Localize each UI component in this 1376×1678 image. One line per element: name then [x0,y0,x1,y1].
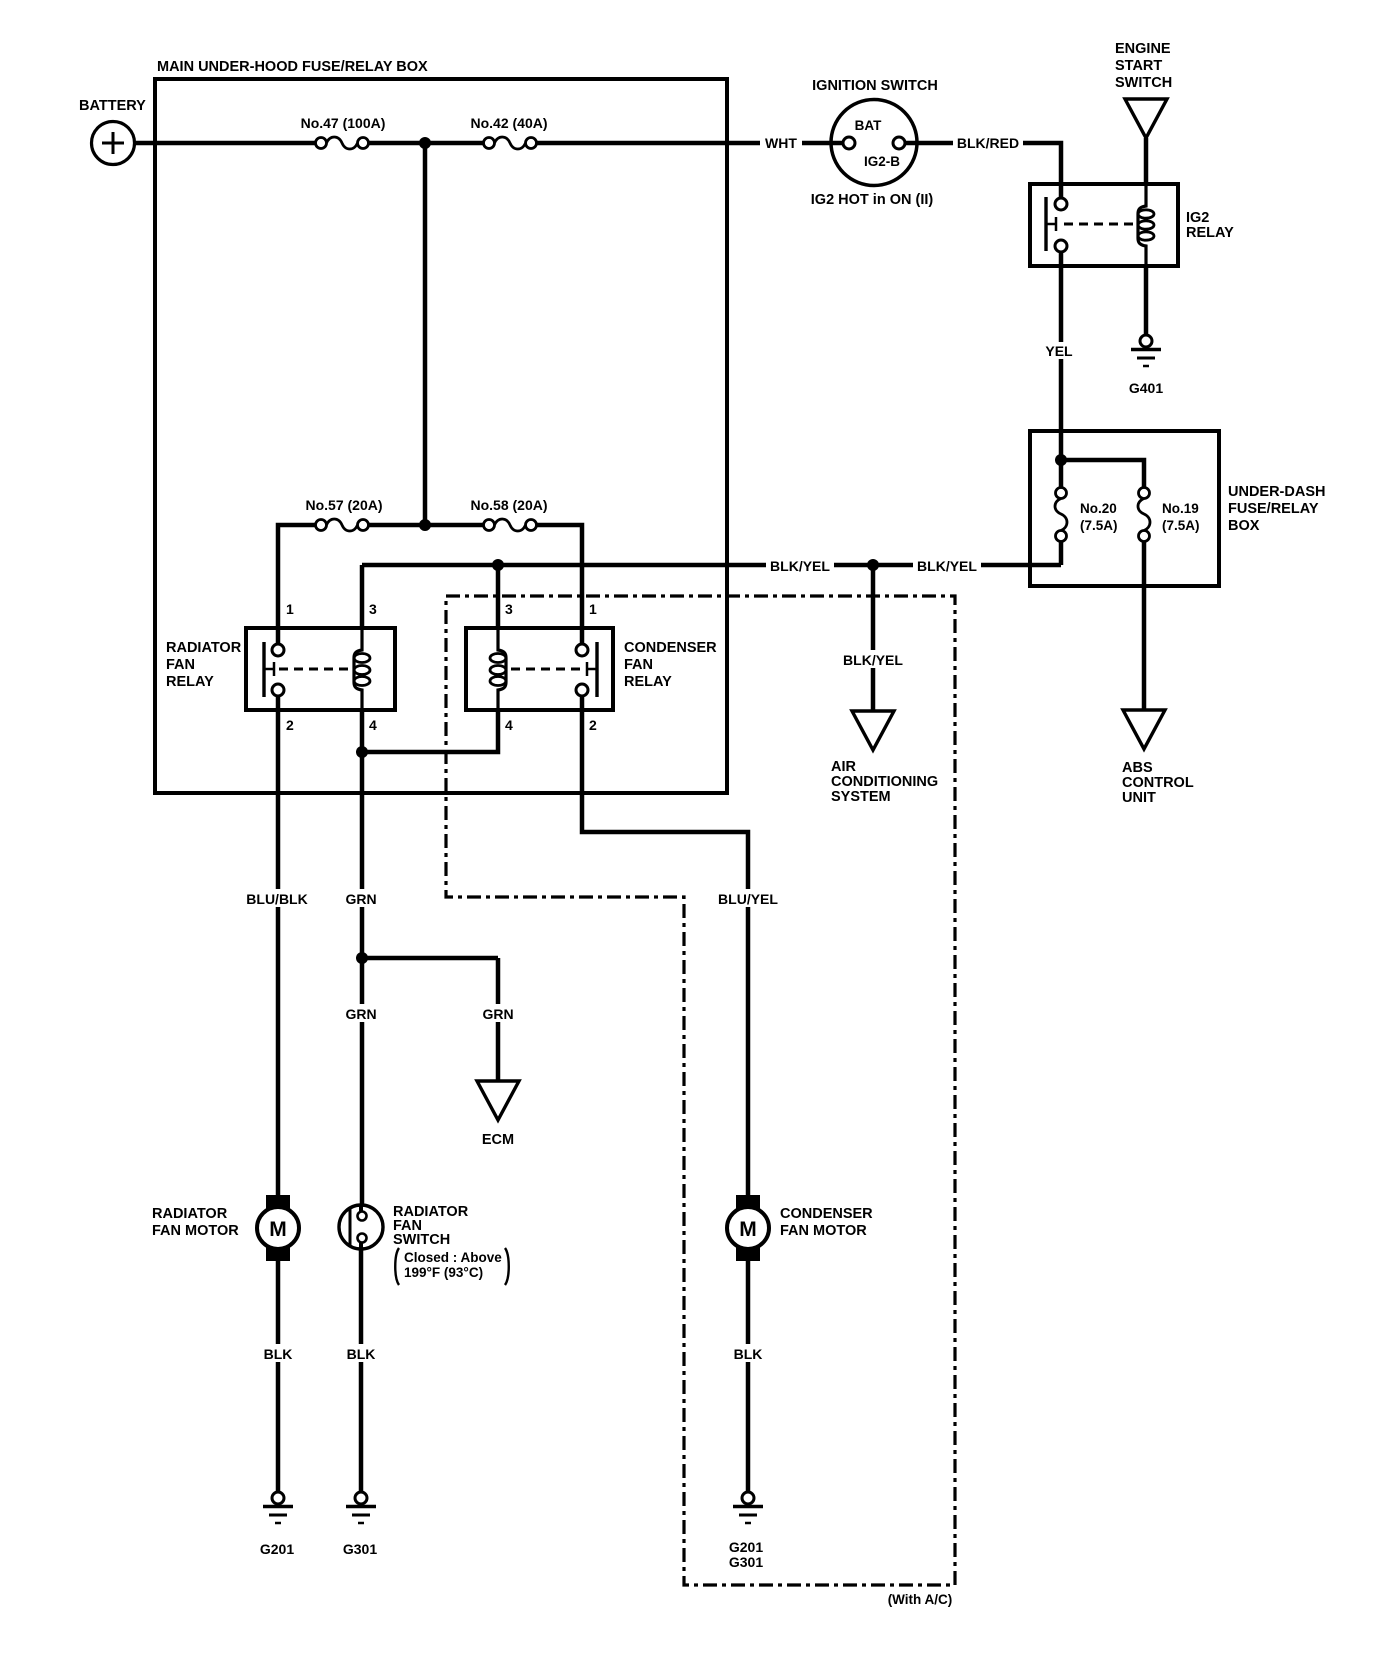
ground G401 [1129,335,1163,396]
svg-text:ABS: ABS [1122,760,1153,776]
fuse No.58 (20A) [470,497,547,531]
wire BLK/YEL to air conditioning system [839,565,907,711]
svg-text:BLK/YEL: BLK/YEL [770,558,830,574]
wire tap to condenser relay pin 3 [496,565,501,628]
wire GRN to radiator fan switch [340,958,382,1206]
ground G201 G301 condenser [729,1492,763,1570]
svg-text:FAN: FAN [166,657,195,673]
svg-text:RADIATOR: RADIATOR [152,1206,228,1222]
wire GRN split horizontal [362,956,498,961]
svg-text:BAT: BAT [855,118,882,133]
svg-text:AIR: AIR [831,759,857,775]
main under-hood fuse/relay box [155,59,727,793]
fuse No.42 (40A) [470,115,547,149]
wire junction to fuse No.19 [1061,460,1144,487]
svg-text:CONDENSER: CONDENSER [780,1206,873,1222]
svg-text:CONDENSER: CONDENSER [624,640,717,656]
svg-text:(With A/C): (With A/C) [888,1592,953,1607]
svg-text:RELAY: RELAY [1186,225,1234,241]
wire IG2 coil to ground [1144,266,1149,336]
svg-text:FAN MOTOR: FAN MOTOR [780,1223,867,1239]
svg-text:No.42 (40A): No.42 (40A) [470,115,547,131]
svg-text:2: 2 [589,717,597,733]
svg-text:BLK: BLK [734,1346,763,1362]
radiator fan motor [152,1195,299,1261]
svg-text:BLK: BLK [347,1346,376,1362]
svg-text:FAN: FAN [624,657,653,673]
svg-text:G301: G301 [343,1541,377,1557]
fuse No.19 (7.5A) [1138,488,1200,542]
fuse No.20 (7.5A) [1055,460,1118,542]
wire GRN radiator relay pin 4 down [340,710,382,958]
svg-text:RELAY: RELAY [166,674,214,690]
svg-text:G401: G401 [1129,380,1163,396]
svg-text:G201: G201 [260,1541,294,1557]
ground G301 [343,1492,377,1557]
svg-text:No.20: No.20 [1080,501,1117,516]
svg-text:3: 3 [369,601,377,617]
svg-text:No.47 (100A): No.47 (100A) [301,115,386,131]
svg-text:BLK: BLK [264,1346,293,1362]
svg-text:UNIT: UNIT [1122,790,1156,806]
svg-text:GRN: GRN [482,1006,513,1022]
svg-text:SWITCH: SWITCH [393,1232,450,1248]
svg-text:BLK/YEL: BLK/YEL [843,652,903,668]
svg-text:FUSE/RELAY: FUSE/RELAY [1228,501,1319,517]
svg-text:BATTERY: BATTERY [79,98,146,114]
junction feed to fuse row [419,519,431,531]
node air conditioning tap [867,559,879,571]
svg-text:BLK/RED: BLK/RED [957,135,1019,151]
svg-text:START: START [1115,58,1162,74]
wire fuse row middle [369,523,485,528]
svg-text:1: 1 [589,601,597,617]
wire fuse row left [278,525,316,644]
svg-text:UNDER-DASH: UNDER-DASH [1228,484,1325,500]
IG2 relay [1030,184,1234,266]
svg-text:4: 4 [369,717,377,733]
svg-text:G201: G201 [729,1539,763,1555]
wire condenser relay pin 4 to junction [362,710,498,752]
air conditioning system connector [831,711,938,805]
wire BLU/YEL condenser relay pin 2 to motor [582,696,783,1196]
wire YEL IG2 relay to under-dash box [1042,252,1078,460]
junction bus feed [419,137,431,149]
wire start switch to IG2 relay coil [1144,138,1149,185]
svg-text:SYSTEM: SYSTEM [831,789,891,805]
svg-text:GRN: GRN [345,891,376,907]
svg-text:G301: G301 [729,1554,763,1570]
svg-text:3: 3 [505,601,513,617]
wire BLK/YEL bus [362,541,1061,628]
wire BLK condenser fan motor to ground [728,1261,768,1492]
svg-text:(7.5A): (7.5A) [1080,518,1118,533]
svg-text:IGNITION SWITCH: IGNITION SWITCH [812,78,938,94]
with A/C dash-dot box [446,596,955,1607]
svg-text:BLU/BLK: BLU/BLK [246,891,307,907]
node GRN split [356,952,368,964]
junction YEL to fuses [1055,454,1067,466]
svg-text:IG2 HOT in ON (II): IG2 HOT in ON (II) [811,192,934,208]
svg-text:CONDITIONING: CONDITIONING [831,774,938,790]
wire GRN to ECM [477,958,519,1081]
condenser fan motor [727,1195,873,1261]
svg-text:BLU/YEL: BLU/YEL [718,891,778,907]
svg-text:MAIN UNDER-HOOD FUSE/RELAY BOX: MAIN UNDER-HOOD FUSE/RELAY BOX [157,59,428,75]
ground G201 [260,1492,294,1557]
fuse No.47 (100A) [301,115,386,149]
svg-text:RELAY: RELAY [624,674,672,690]
condenser fan relay [466,628,717,710]
node radiator relay pin 4 junction [356,746,368,758]
radiator fan relay [166,628,395,710]
node condenser relay coil tap [492,559,504,571]
svg-text:2: 2 [286,717,294,733]
svg-text:BLK/YEL: BLK/YEL [917,558,977,574]
svg-text:M: M [269,1218,287,1241]
wire WHT bus to ignition switch [537,134,844,152]
wire fuse No.19 to ABS control unit [1142,541,1147,710]
svg-text:(7.5A): (7.5A) [1162,518,1200,533]
svg-text:ECM: ECM [482,1132,514,1148]
svg-text:No.57 (20A): No.57 (20A) [305,497,382,513]
svg-text:IG2-B: IG2-B [864,154,900,169]
wire BLK radiator fan motor to ground [258,1261,298,1492]
wire battery to bus [135,141,317,146]
engine start switch [1115,41,1172,138]
svg-text:M: M [739,1218,757,1241]
svg-text:GRN: GRN [345,1006,376,1022]
fuse No.57 (20A) [305,497,382,531]
svg-text:YEL: YEL [1045,343,1073,359]
wire fuse row right to condenser relay pin 1 [537,525,583,644]
svg-text:FAN MOTOR: FAN MOTOR [152,1223,239,1239]
svg-text:1: 1 [286,601,294,617]
under-dash fuse/relay box [1030,431,1325,586]
wire feed down inside main box [423,143,428,525]
ABS control unit connector [1122,710,1194,806]
svg-text:IG2: IG2 [1186,210,1209,226]
wire BLK/RED ignition to IG2 relay [905,134,1061,198]
ignition switch [811,78,938,208]
svg-text:ENGINE: ENGINE [1115,41,1171,57]
svg-text:CONTROL: CONTROL [1122,775,1194,791]
svg-text:WHT: WHT [765,135,797,151]
wire bus segment [369,141,485,146]
svg-text:BOX: BOX [1228,518,1260,534]
svg-text:4: 4 [505,717,513,733]
radiator fan switch [339,1204,509,1285]
wire BLU/BLK radiator relay pin 2 to motor [243,696,311,1196]
svg-text:Closed : Above: Closed : Above [404,1250,502,1265]
svg-text:RADIATOR: RADIATOR [166,640,242,656]
ECM connector [477,1081,519,1148]
svg-text:SWITCH: SWITCH [1115,75,1172,91]
svg-text:199°F (93°C): 199°F (93°C) [404,1265,483,1280]
svg-text:No.58 (20A): No.58 (20A) [470,497,547,513]
battery [79,98,146,165]
svg-text:No.19: No.19 [1162,501,1199,516]
wire BLK radiator fan switch to ground [341,1249,381,1492]
